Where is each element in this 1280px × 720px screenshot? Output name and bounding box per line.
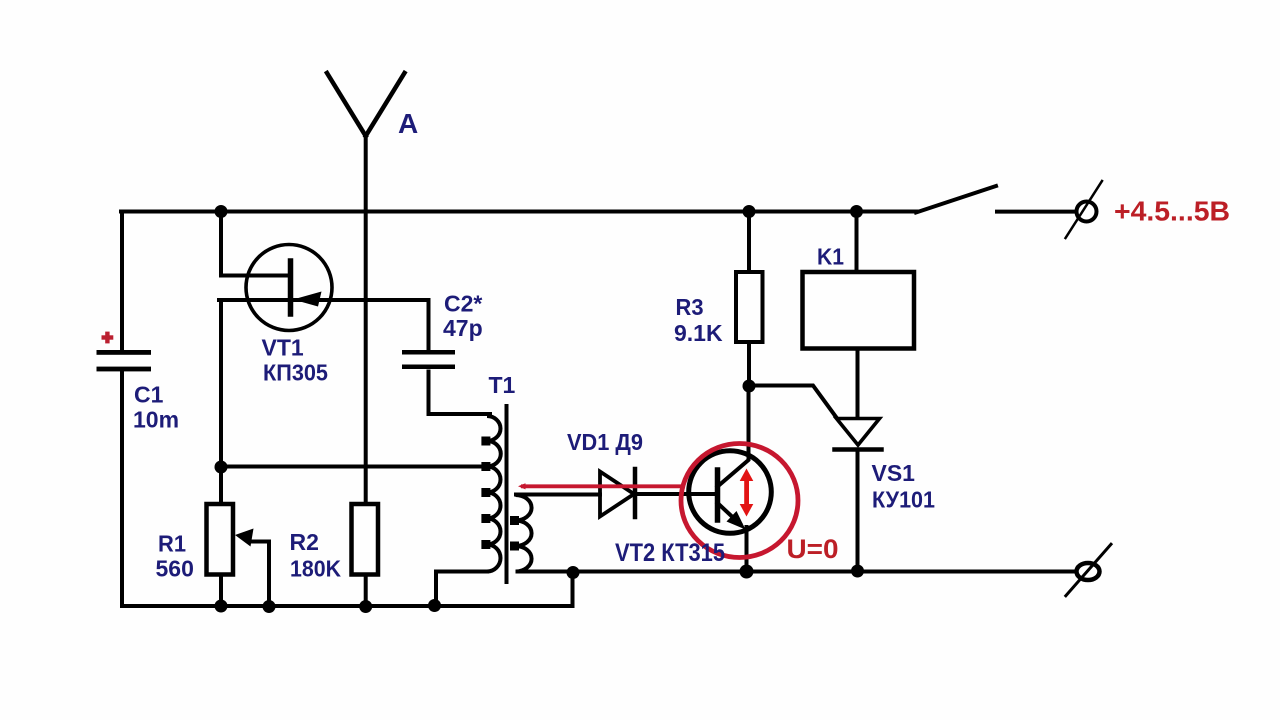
svg-text:КУ101: КУ101 [872,487,935,513]
diode VD1 triangle [600,472,634,517]
svg-text:47p: 47p [443,315,483,341]
svg-text:C2*: C2* [444,291,482,317]
svg-text:+4.5...5В: +4.5...5В [1114,196,1230,227]
svg-text:R3: R3 [676,294,704,320]
wire VT1 drain from top rail [221,212,291,276]
transistor VT2 base bar [715,470,721,520]
wire tap line to T1 primary [221,465,487,469]
wire R3 bottom to junction [747,342,751,386]
wire R1 bottom [219,575,223,607]
wire gate junction to VS1 [749,386,836,418]
arrow VT1 gate arrowhead [293,292,322,307]
red highlight circle around VT2 [681,444,798,558]
wire VS1 cathode down [856,451,860,572]
wire bottom-left ground rail [122,604,573,608]
wire VT1 source down to tap [219,300,223,467]
svg-text:R1: R1 [158,531,186,557]
junction dot top rail / VT1 [215,205,228,218]
resistor R3 body [736,272,763,342]
wire T1 secondary top to diode [516,493,600,497]
capacitor C2 lead to T1 [429,372,491,415]
transistor VT2 emitter [718,503,741,524]
transformer T1 winding cusp nubs [483,439,517,549]
junction dot secondary to ground riser [567,566,580,579]
junction dot VT2 emitter [740,565,754,579]
arrow VT2 emitter arrowhead [727,511,746,530]
relay K1 coil box [803,272,915,349]
svg-text:VS1: VS1 [872,460,916,486]
junction dot VS1 cathode rail [851,565,864,578]
transformer T1 core [505,406,509,582]
svg-text:A: A [398,108,418,139]
svg-text:9.1K: 9.1K [674,320,723,346]
transistor VT2 circle [689,451,772,534]
junction dot wiper bottom [263,600,276,613]
wire T1 primary bottom to ground rail [436,572,487,607]
transformer T1 primary winding [484,416,501,572]
svg-text:C1: C1 [134,382,164,408]
junction dot T1 bottom [428,599,441,612]
terminal bottom slash [1066,544,1111,595]
transistor VT1 channel bar [288,261,294,314]
wire R3 top [747,212,751,273]
junction dot top rail / R3 [743,205,756,218]
wire K1 top [855,212,859,273]
transistor VT1 circle [246,245,332,331]
resistor R2 body [352,504,379,575]
wire C1 bottom to bottom rail [120,372,124,605]
red signal line left tip [518,483,526,489]
potentiometer R1 wiper shaft [251,542,269,607]
capacitor C2 lead down [427,300,431,350]
wire K1 bottom to VS1 anode [856,349,860,419]
svg-text:VT2 КТ315: VT2 КТ315 [615,539,725,567]
wire VT2 emitter down [745,527,749,572]
wire switch to terminal [997,210,1074,214]
svg-text:КП305: КП305 [263,360,328,386]
wire top supply rail [121,210,917,214]
thyristor VS1 triangle [837,419,880,446]
junction dot R2 bottom [359,600,372,613]
svg-text:10m: 10m [133,407,179,433]
antenna A mast [364,136,368,504]
svg-text:VT1: VT1 [262,335,304,361]
wire riser joining bottom rails [571,572,575,606]
capacitor C1 bottom plate [97,367,152,372]
junction dot R1 bottom [215,600,228,613]
diode VD1 cathode bar [633,469,638,517]
terminal top slash [1066,181,1103,238]
capacitor C1 top plate [97,350,152,355]
antenna left arm [327,73,366,136]
junction dot R3 / VS1 gate [743,380,756,393]
antenna right arm [366,73,405,136]
red signal line over VD1 [521,484,685,488]
svg-text:U=0: U=0 [787,534,839,564]
capacitor C2 top plate [402,350,455,355]
wire VD1 to VT2 base [636,492,716,496]
transformer T1 secondary winding [516,495,532,572]
red double arrow in VT2 [740,469,754,517]
junction dot top rail / K1 [850,205,863,218]
terminal top (+) circle [1077,202,1097,222]
wire R1 top [219,467,223,504]
thyristor VS1 cathode bar [835,447,882,452]
svg-text:180K: 180K [290,556,341,582]
arrow R1 wiper arrowhead [235,529,254,547]
resistor R1 body [207,504,234,575]
svg-text:K1: K1 [817,244,844,270]
wire R2 bottom [364,575,368,607]
wire VT1 gate line to C2 [219,298,429,302]
label C1 plus sign [102,332,114,344]
svg-text:VD1 Д9: VD1 Д9 [567,429,643,455]
transistor VT2 collector [718,386,749,487]
wire left branch (C1 top) [120,212,124,351]
capacitor C2 bottom plate [402,365,455,370]
svg-text:T1: T1 [489,372,516,398]
junction dot tap line [215,461,228,474]
svg-text:560: 560 [156,556,194,582]
switch SA1 blade [916,186,996,213]
terminal bottom circle [1077,563,1100,580]
wire bottom-right rail [524,570,1076,574]
svg-text:R2: R2 [290,529,319,555]
